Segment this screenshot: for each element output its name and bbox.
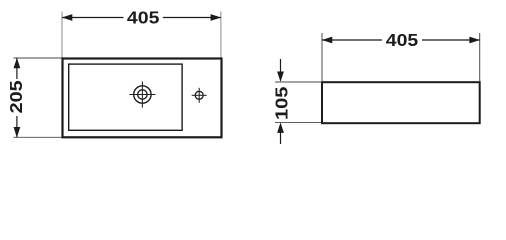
tap hole crosshair vertical (198, 88, 200, 103)
tap hole circle (195, 91, 203, 99)
arrow shaft above (105 dim) (280, 59, 282, 73)
dimension line 205 top segment (16, 58, 18, 79)
tap hole crosshair horizontal (192, 94, 207, 96)
basin inner bowl rectangle (69, 64, 182, 130)
arrowhead down onto top ext (277, 72, 284, 83)
arrowhead right (211, 14, 222, 21)
svg-text:205: 205 (6, 80, 26, 113)
svg-text:405: 405 (127, 8, 160, 28)
drain outer circle (134, 86, 151, 103)
arrowhead left (62, 14, 73, 21)
side view body rectangle (322, 82, 480, 123)
extension line top (205 dim) (13, 57, 61, 59)
extension line bottom (105 dim) (275, 121, 321, 123)
svg-text:405: 405 (386, 30, 419, 50)
extension line left (top 405 dim) (61, 12, 63, 58)
extension line left (side 405 dim) (321, 33, 323, 81)
dimension line 405 right segment (side) (422, 39, 480, 41)
arrowhead down (14, 127, 21, 138)
arrowhead up onto bottom ext (277, 122, 284, 132)
basin outer rim rectangle (63, 59, 222, 138)
dimension line 405 left segment (side) (322, 39, 382, 41)
arrowhead right (side) (469, 37, 480, 44)
extension line right (side 405 dim) (479, 33, 481, 81)
arrow shaft below (105 dim) (280, 132, 282, 144)
arrowhead up (14, 58, 21, 69)
drain crosshair horizontal (129, 94, 155, 96)
svg-text:105: 105 (271, 86, 291, 120)
extension line right (top 405 dim) (220, 12, 222, 58)
arrowhead left (side) (322, 37, 333, 44)
extension line bottom (205 dim) (13, 136, 61, 138)
drain inner circle (138, 90, 147, 99)
extension line top (105 dim) (275, 81, 321, 83)
dimension line 405 right segment (163, 17, 221, 19)
dimension line 205 bottom segment (16, 116, 18, 137)
dimension line 405 left segment (62, 17, 124, 19)
drain crosshair vertical (141, 81, 143, 107)
